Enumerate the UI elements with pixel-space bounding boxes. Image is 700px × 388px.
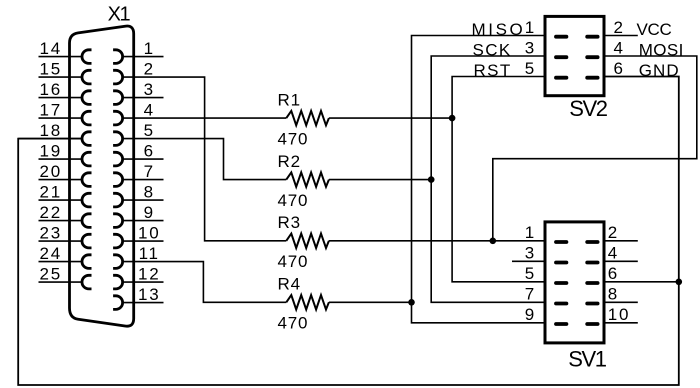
SV2 label xyxy=(569,96,608,121)
SV1 pin 10 pad xyxy=(585,305,630,326)
net label MOSI xyxy=(639,40,684,59)
svg-text:10: 10 xyxy=(608,305,631,324)
X1 pin 20 xyxy=(39,162,92,186)
resistor R3 470 xyxy=(278,213,329,271)
junction RST/R1 xyxy=(449,115,456,122)
wire R1 output to RST column xyxy=(329,117,452,119)
X1 pin 7 xyxy=(113,162,163,186)
svg-text:14: 14 xyxy=(39,39,62,58)
svg-text:15: 15 xyxy=(39,60,62,79)
svg-text:MOSI: MOSI xyxy=(639,40,684,59)
X1 pin 24 xyxy=(39,244,92,268)
svg-text:18: 18 xyxy=(39,121,62,140)
wire R2 output to SCK column xyxy=(329,179,431,181)
SV2 pin 6 pad xyxy=(585,59,624,80)
junction MISO/R4 xyxy=(408,299,415,306)
SV1 pin 6 wire to GND column xyxy=(604,281,679,283)
svg-text:5: 5 xyxy=(525,59,536,78)
net label MISO xyxy=(472,20,526,39)
X1 pin 17 xyxy=(39,101,92,125)
SV2 pin 3 pad xyxy=(525,38,569,59)
SV1 pin 10 stub xyxy=(604,322,638,324)
wire GND net: X1 pin 18 left, bottom, up right to SV2 pin 6 xyxy=(18,77,679,386)
svg-text:3: 3 xyxy=(525,38,536,57)
SV1 pin 4 pad xyxy=(585,244,619,265)
wire X1 pin 2 to R3 input xyxy=(123,77,287,241)
X1 pin 11 xyxy=(113,244,160,268)
SV1 pin 5 pad xyxy=(525,264,569,285)
svg-text:23: 23 xyxy=(39,224,62,243)
X1 pin 25 xyxy=(39,265,92,289)
svg-text:2: 2 xyxy=(144,60,155,79)
svg-text:8: 8 xyxy=(144,183,155,202)
svg-text:4: 4 xyxy=(614,38,625,57)
svg-text:13: 13 xyxy=(138,285,161,304)
svg-text:470: 470 xyxy=(278,129,309,148)
wire X1 pin 4 to R1 input xyxy=(123,117,287,119)
X1 pin 21 xyxy=(39,183,92,207)
svg-text:470: 470 xyxy=(278,191,309,210)
svg-text:5: 5 xyxy=(144,121,155,140)
svg-text:5: 5 xyxy=(525,264,536,283)
SV1 pin 8 pad xyxy=(585,285,619,306)
wire X1 pin 5 to R2 input xyxy=(123,139,287,180)
SV1 pin 1 pad xyxy=(525,223,569,244)
X1 pin 13 xyxy=(113,285,163,309)
wire RST net: SV2 pin 5 to SV1 pin 5 xyxy=(452,77,545,282)
svg-text:1: 1 xyxy=(144,39,155,58)
X1 label xyxy=(108,4,131,26)
net label GND xyxy=(639,61,680,80)
svg-text:GND: GND xyxy=(639,61,680,80)
resistor R1 470 xyxy=(278,91,329,149)
junction SCK/R2 xyxy=(428,176,435,183)
svg-text:SCK: SCK xyxy=(473,40,512,59)
svg-text:4: 4 xyxy=(608,244,619,263)
svg-text:SV1: SV1 xyxy=(568,346,607,371)
wire R3 output to SV1 pin 1 xyxy=(329,240,545,242)
SV2 pin 5 pad xyxy=(525,59,569,80)
svg-text:10: 10 xyxy=(138,224,161,243)
X1 pin 6 xyxy=(113,142,163,166)
X1 pin 23 xyxy=(39,224,92,248)
SV2 pin 4 pad xyxy=(585,38,624,59)
wire R4 output to MISO column xyxy=(329,301,412,303)
svg-text:7: 7 xyxy=(525,285,536,304)
svg-text:SV2: SV2 xyxy=(569,96,608,121)
junction MOSI/R3 xyxy=(490,238,497,245)
X1 pin 18 xyxy=(18,121,91,145)
header SV2 box xyxy=(545,16,604,95)
junction GND/SV1 pin 6 xyxy=(676,279,683,286)
X1 pin 4 xyxy=(113,101,155,125)
X1 pin 10 xyxy=(113,224,163,248)
SV1 pin 2 pad xyxy=(585,223,619,244)
X1 pin 16 xyxy=(39,80,92,104)
svg-text:1: 1 xyxy=(525,18,536,37)
svg-text:X1: X1 xyxy=(108,4,131,26)
svg-text:R1: R1 xyxy=(278,91,301,110)
svg-text:21: 21 xyxy=(39,183,62,202)
svg-text:470: 470 xyxy=(278,252,309,271)
X1 pin 2 xyxy=(113,60,155,84)
SV2 pin 1 pad xyxy=(525,18,569,39)
X1 pin 8 xyxy=(113,183,163,207)
svg-text:2: 2 xyxy=(608,223,619,242)
SV1 label xyxy=(568,346,607,371)
wire X1 pin 11 to R4 input xyxy=(123,262,287,303)
svg-text:6: 6 xyxy=(608,264,619,283)
connector X1 shell xyxy=(70,26,134,326)
X1 pin 12 xyxy=(113,265,163,289)
svg-text:4: 4 xyxy=(144,101,155,120)
X1 pin 9 xyxy=(113,203,163,227)
svg-text:20: 20 xyxy=(39,162,62,181)
SV1 pin 8 stub xyxy=(604,301,638,303)
net label VCC xyxy=(637,20,672,39)
svg-text:6: 6 xyxy=(144,142,155,161)
SV1 pin 6 pad xyxy=(585,264,619,285)
SV1 pin 7 pad xyxy=(525,285,569,306)
SV2 pin 2 pad xyxy=(585,18,624,39)
net label SCK xyxy=(473,40,512,59)
svg-text:7: 7 xyxy=(144,162,155,181)
SV1 pin 3 pad xyxy=(525,244,569,265)
header SV1 box xyxy=(545,222,604,343)
svg-text:3: 3 xyxy=(525,244,536,263)
svg-text:9: 9 xyxy=(525,305,536,324)
svg-text:1: 1 xyxy=(525,223,536,242)
svg-text:470: 470 xyxy=(278,314,309,333)
X1 pin 3 xyxy=(113,80,163,104)
SV1 pin 9 pad xyxy=(525,305,569,326)
svg-text:R3: R3 xyxy=(278,213,301,232)
svg-text:12: 12 xyxy=(138,265,161,284)
svg-text:RST: RST xyxy=(474,61,512,80)
X1 pin 15 xyxy=(39,60,92,84)
svg-text:19: 19 xyxy=(39,142,62,161)
wire VCC stub on SV2 pin 2 xyxy=(604,35,638,37)
wire MISO net: SV2 pin 1 to SV1 pin 9 xyxy=(412,36,546,323)
resistor R4 470 xyxy=(278,275,329,333)
svg-text:17: 17 xyxy=(39,101,62,120)
X1 pin 1 xyxy=(113,39,163,63)
SV1 pin 3 stub xyxy=(512,260,545,262)
wire SCK net: SV2 pin 3 to SV1 pin 7 xyxy=(431,56,545,302)
svg-text:24: 24 xyxy=(39,244,62,263)
svg-text:3: 3 xyxy=(144,80,155,99)
wire MOSI net: SV2 pin 4 around right down to SV1 pin 1 xyxy=(493,56,697,241)
svg-text:6: 6 xyxy=(614,59,625,78)
svg-text:22: 22 xyxy=(39,203,62,222)
svg-text:R4: R4 xyxy=(278,275,301,294)
resistor R2 470 xyxy=(278,152,329,210)
svg-text:16: 16 xyxy=(39,80,62,99)
X1 pin 19 xyxy=(39,142,92,166)
X1 pin 22 xyxy=(39,203,92,227)
SV1 pin 2 stub xyxy=(604,240,638,242)
X1 pin 5 xyxy=(113,121,155,145)
SV1 pin 4 stub xyxy=(604,260,638,262)
svg-text:R2: R2 xyxy=(278,152,301,171)
svg-text:8: 8 xyxy=(608,285,619,304)
svg-text:2: 2 xyxy=(614,18,625,37)
svg-text:11: 11 xyxy=(139,244,160,263)
svg-text:VCC: VCC xyxy=(637,20,672,39)
X1 pin 14 xyxy=(39,39,92,63)
svg-text:25: 25 xyxy=(39,265,62,284)
svg-text:9: 9 xyxy=(144,203,155,222)
svg-text:MISO: MISO xyxy=(472,20,526,39)
net label RST xyxy=(474,61,512,80)
